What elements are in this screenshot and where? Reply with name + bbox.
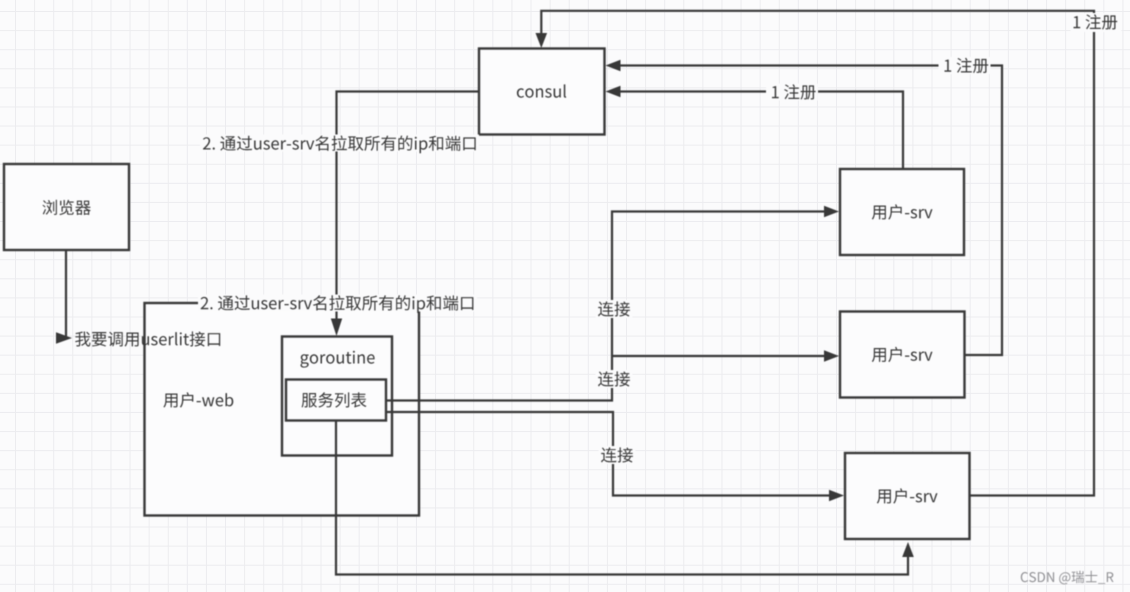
box goroutine — [282, 337, 392, 456]
label 2. 通过user-srv名拉取所有的ip和端口 (lower) — [198, 295, 477, 312]
label 连接 (top) — [596, 300, 633, 318]
wire junction branch to 用户-srv 2 — [612, 355, 826, 357]
box 浏览器 — [4, 164, 129, 250]
box 用户-web — [145, 303, 420, 516]
arrowhead up into 用户-srv 3 bottom — [902, 542, 914, 557]
arrowhead right into 用户-srv 2 left — [824, 350, 839, 362]
wire 浏览器 down to annotation — [65, 250, 67, 338]
label 2. 通过user-srv名拉取所有的ip和端口 (upper) — [200, 135, 479, 152]
wire consul left to goroutine top — [337, 92, 480, 323]
box 服务列表 — [286, 380, 386, 421]
arrowhead down into consul top — [536, 33, 548, 48]
wire 服务列表 upper line to junction column — [386, 212, 826, 401]
box 用户-srv 3 — [845, 453, 970, 539]
label 1 注册 (upper middle) — [939, 57, 991, 74]
label 连接 (bottom) — [599, 446, 636, 464]
label 1 注册 (lower middle) — [766, 84, 818, 101]
box consul — [479, 49, 605, 135]
wire register path from 用户-srv 2 to consul right — [618, 66, 1002, 356]
arrowhead left into consul right (lower) — [606, 86, 621, 98]
label 1 注册 (top right) — [1071, 13, 1122, 32]
arrowhead right into 用户-srv 1 left — [824, 206, 839, 218]
arrowhead left into consul right (upper) — [606, 60, 621, 72]
wire 服务列表 bottom to 用户-srv 3 bottom — [336, 421, 908, 575]
label 连接 (middle) — [596, 370, 633, 388]
wire 服务列表 lower line down to 用户-srv 3 — [386, 412, 831, 496]
watermark CSDN @瑞士_R — [1021, 571, 1114, 585]
arrowhead right toward annotation text — [56, 332, 72, 344]
wire register path from 用户-srv 1 top to consul right — [618, 92, 903, 170]
arrowhead right into 用户-srv 3 left — [829, 490, 844, 502]
wire register path from 用户-srv 3 to consul top — [541, 11, 1094, 496]
box 用户-srv 1 — [840, 169, 964, 255]
label 我要调用userlit接口 — [75, 331, 220, 346]
arrowhead down into goroutine top — [331, 319, 342, 337]
box 用户-srv 2 — [840, 312, 965, 398]
